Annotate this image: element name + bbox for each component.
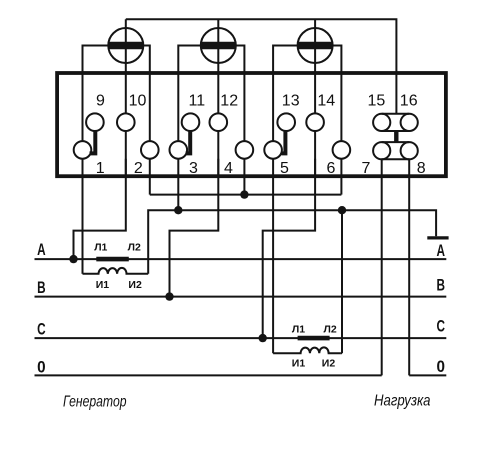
terminal 8 bbox=[401, 142, 418, 159]
terminal 14 bbox=[306, 113, 324, 131]
svg-text:4: 4 bbox=[224, 160, 233, 177]
wire terminal 3 down to secondary line bbox=[177, 159, 179, 211]
wire inside box to terminal 3 bbox=[177, 76, 179, 141]
svg-text:15: 15 bbox=[368, 93, 386, 110]
svg-text:5: 5 bbox=[280, 160, 289, 177]
link bar terminals 15-16 top bbox=[382, 113, 410, 115]
terminal 15 bbox=[373, 114, 390, 131]
wire terminal 14 jog to phase C tap bbox=[263, 159, 315, 338]
wire terminal 10 jog to phase A tap bbox=[74, 159, 126, 259]
junction node phase C tap bbox=[259, 334, 267, 342]
wire terminal 4 down to common line bbox=[243, 159, 245, 195]
terminal 7 bbox=[373, 142, 390, 159]
wire below terminal 10 inside box bbox=[125, 131, 127, 176]
wire inside box to terminal 5 bbox=[272, 76, 274, 141]
svg-text:7: 7 bbox=[361, 160, 370, 177]
wire below terminal 8 inside box bbox=[408, 159, 410, 176]
svg-text:Нагрузка: Нагрузка bbox=[374, 393, 431, 410]
wire terminal 2 down to common line bbox=[149, 159, 151, 195]
terminal 12 bbox=[210, 113, 228, 131]
junction node phase B tap bbox=[165, 292, 173, 300]
terminal 13 bbox=[277, 113, 295, 131]
svg-text:0: 0 bbox=[37, 358, 46, 377]
meter element W1 current bar bbox=[108, 42, 144, 49]
wire W3 right bracket to terminal 6 bbox=[332, 46, 342, 77]
wire W3 left bracket to terminal 5 bbox=[273, 46, 299, 77]
junction node phase A tap bbox=[69, 255, 77, 263]
terminal 5 bbox=[264, 141, 282, 159]
link bar terminals 7-8 bottom bbox=[382, 158, 410, 160]
svg-text:И1: И1 bbox=[292, 358, 306, 370]
terminal 11 bbox=[182, 113, 200, 131]
link bar terminals 7-8 top bbox=[382, 141, 410, 143]
jumper terminal 11 to terminal 3 bbox=[186, 130, 191, 153]
phase bus B bbox=[35, 296, 447, 298]
svg-text:Л1: Л1 bbox=[94, 242, 107, 254]
svg-text:12: 12 bbox=[220, 93, 238, 110]
svg-text:1: 1 bbox=[96, 160, 105, 177]
wire TA2 I2 lead (merge with branch) bbox=[341, 352, 342, 354]
svg-text:8: 8 bbox=[417, 160, 426, 177]
junction node terminal 3 on I2 line bbox=[174, 206, 182, 214]
svg-text:Л2: Л2 bbox=[128, 242, 141, 254]
svg-text:Л1: Л1 bbox=[292, 324, 305, 336]
wire W2 right bracket to terminal 4 bbox=[235, 46, 245, 77]
wire element 2 vertical through circle to terminal 12 bbox=[217, 19, 219, 114]
svg-text:14: 14 bbox=[317, 93, 335, 110]
wire element 1 vertical through circle to terminal 10 bbox=[125, 19, 127, 114]
wire below terminal 7 inside box bbox=[381, 159, 383, 176]
wire W2 left bracket to terminal 3 bbox=[178, 46, 202, 77]
svg-text:B: B bbox=[437, 276, 446, 295]
meter element W2 current bar bbox=[201, 42, 237, 49]
wire top bus from meter elements to terminals 15/16 bbox=[126, 19, 397, 114]
wire inside box to terminal 1 bbox=[82, 76, 84, 141]
svg-text:И1: И1 bbox=[96, 279, 110, 291]
terminal 3 bbox=[170, 141, 188, 159]
terminal 16 bbox=[401, 114, 418, 131]
phase bus C bbox=[35, 337, 447, 339]
junction node I2 branch to TA2 bbox=[338, 206, 346, 214]
terminal 9 bbox=[86, 113, 104, 131]
svg-text:C: C bbox=[437, 316, 446, 335]
wire terminal 5 down to CT2 secondary I1 bbox=[272, 159, 274, 354]
current transformer TA2 primary bar bbox=[298, 336, 330, 341]
wire W1 left bracket to terminal 1 bbox=[83, 46, 110, 77]
terminal 4 bbox=[236, 141, 254, 159]
svg-text:A: A bbox=[437, 241, 446, 260]
current transformer TA1 secondary winding bbox=[83, 268, 149, 274]
wire terminal 6 down to common line bbox=[340, 159, 342, 195]
wire terminal 12 jog to phase B tap bbox=[170, 159, 219, 297]
svg-text:13: 13 bbox=[282, 93, 300, 110]
wire terminal 1 down to CT1 secondary I1 bbox=[82, 159, 84, 274]
neutral bus 0 generator side bbox=[35, 374, 382, 376]
wire W1 right bracket to terminal 2 bbox=[142, 46, 150, 77]
wire terminal 8 down to neutral bbox=[408, 176, 410, 375]
jumper terminal 13 to terminal 5 bbox=[282, 130, 286, 153]
meter element W3 current bar bbox=[297, 42, 333, 49]
svg-text:B: B bbox=[37, 278, 46, 297]
wire branch line I2 down to CT2 secondary I2 bbox=[341, 210, 343, 353]
svg-text:И2: И2 bbox=[128, 279, 142, 291]
wire below terminal 12 inside box bbox=[217, 131, 219, 176]
svg-text:2: 2 bbox=[134, 160, 143, 177]
current transformer TA1 primary bar bbox=[96, 257, 129, 262]
ground symbol bar bbox=[427, 236, 448, 239]
secondary common line I2 with ground stub bbox=[148, 210, 436, 274]
svg-text:9: 9 bbox=[96, 93, 105, 110]
common line terminals 2-4-6 bbox=[150, 194, 342, 196]
jumper link between 15/16 and 7/8 bbox=[394, 131, 398, 142]
neutral bus 0 load side bbox=[409, 374, 446, 376]
svg-text:3: 3 bbox=[189, 160, 198, 177]
svg-text:0: 0 bbox=[437, 357, 446, 376]
wire inside box to terminal 6 bbox=[340, 76, 342, 141]
wire below terminal 14 inside box bbox=[314, 131, 316, 176]
terminal 1 bbox=[74, 141, 92, 159]
svg-text:Генератор: Генератор bbox=[63, 394, 127, 411]
meter element W2 (circle) bbox=[201, 28, 236, 63]
svg-text:11: 11 bbox=[188, 93, 205, 110]
wire inside box to terminal 4 bbox=[243, 76, 245, 141]
wire inside box to terminal 2 bbox=[149, 76, 151, 141]
svg-text:6: 6 bbox=[327, 160, 336, 177]
terminal 2 bbox=[141, 141, 159, 159]
svg-text:16: 16 bbox=[400, 93, 418, 110]
link bar terminals 15-16 bottom bbox=[382, 130, 410, 132]
current transformer TA2 secondary winding bbox=[273, 347, 341, 353]
junction node terminal 4 on common line bbox=[240, 190, 248, 198]
wire element 3 vertical through circle to terminal 14 bbox=[314, 19, 316, 114]
jumper terminal 9 to terminal 1 bbox=[90, 130, 96, 153]
terminal 10 bbox=[117, 113, 135, 131]
svg-text:C: C bbox=[37, 320, 46, 339]
svg-text:A: A bbox=[37, 240, 46, 259]
meter element W1 (circle) bbox=[108, 28, 143, 63]
terminal 6 bbox=[333, 141, 351, 159]
svg-text:И2: И2 bbox=[322, 358, 336, 370]
svg-text:10: 10 bbox=[129, 93, 147, 110]
wire terminal 7 down to neutral bbox=[381, 176, 383, 375]
meter element W3 (circle) bbox=[298, 28, 333, 63]
terminal box outline bbox=[57, 73, 446, 176]
phase bus A bbox=[35, 258, 447, 260]
svg-text:Л2: Л2 bbox=[323, 324, 336, 336]
